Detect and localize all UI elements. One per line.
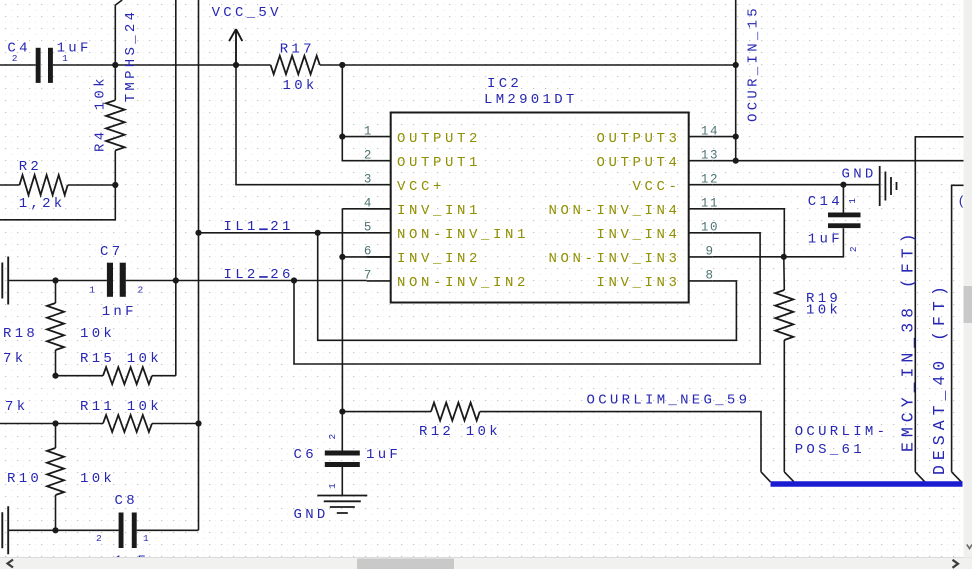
svg-text:VCC+: VCC+ [397,179,445,195]
pin 8 of IC2 [689,280,713,282]
capacitor C8 [119,513,124,549]
pin 6 of IC2 [367,256,391,258]
svg-text:OCURLIM_NEG_59: OCURLIM_NEG_59 [587,392,751,408]
wire [55,424,57,449]
junction [733,158,739,164]
wire [55,495,57,530]
wire [713,209,785,257]
junction [195,230,201,236]
wire [294,233,760,364]
pin 13 of IC2 [689,160,713,162]
wire [8,280,107,282]
svg-text:NON-INV_IN1: NON-INV_IN1 [397,227,529,243]
svg-text:DESAT_40 (FT): DESAT_40 (FT) [930,281,949,475]
svg-text:OUTPUT3: OUTPUT3 [596,131,680,147]
wire [341,467,343,496]
svg-text:R18: R18 [3,326,38,342]
capacitor C6 [325,451,360,456]
svg-text:VCC_5V: VCC_5V [212,5,282,21]
wire [320,64,736,66]
wire [53,64,271,66]
wire [152,423,199,425]
resistor R19 [775,290,793,340]
svg-text:1: 1 [62,53,69,64]
net label IL2_26 underscore [259,276,268,278]
bus OCURLIM [771,481,963,487]
wire [114,150,116,185]
junction [112,182,118,188]
svg-text:10k: 10k [93,75,109,110]
ground [317,496,367,514]
pin 10 of IC2 [689,232,713,234]
capacitor C14 [828,213,861,218]
horizontal scrollbar thumb [357,559,454,569]
capacitor C7 [107,263,113,297]
wire [0,184,20,186]
svg-text:10: 10 [701,221,719,235]
junction [339,409,345,415]
svg-text:LM2901DT: LM2901DT [484,92,578,108]
junction [52,277,58,283]
junction [173,277,179,283]
wire [342,136,366,138]
svg-text:3: 3 [364,173,373,187]
svg-text:2: 2 [327,433,338,440]
vertical scrollbar track [964,0,972,558]
junction [52,527,58,533]
junction [840,182,846,188]
vertical scrollbar down arrow [967,545,972,549]
junction [195,420,201,426]
svg-text:C7: C7 [100,244,123,260]
wire [55,350,57,376]
svg-text:R12 10k: R12 10k [419,424,501,440]
svg-text:NON-INV_IN3: NON-INV_IN3 [548,251,680,267]
vertical scrollbar thumb [964,286,972,323]
svg-text:NON-INV_IN4: NON-INV_IN4 [548,203,680,219]
resistor R18 [47,303,64,350]
wire [480,412,761,472]
resistor R10 [47,448,64,495]
svg-text:2: 2 [848,245,859,252]
junction [339,134,345,140]
svg-text:INV_IN2: INV_IN2 [397,251,481,267]
svg-text:R2: R2 [19,159,42,175]
junction [339,254,345,260]
resistor R2 [20,175,68,195]
svg-text:1: 1 [89,284,96,295]
bus entry [915,472,925,482]
svg-text:OCURLIM-: OCURLIM- [795,424,889,440]
resistor R15 [103,367,152,384]
wire [199,232,367,234]
op-amp IC2 LM2901DT box [391,113,689,303]
pin 9 of IC2 [689,256,713,258]
svg-text:2: 2 [12,53,19,64]
svg-text:INV_IN4: INV_IN4 [596,227,680,243]
svg-text:1uF: 1uF [366,447,401,463]
svg-text:8: 8 [705,269,714,283]
pin 2 of IC2 [367,160,391,162]
svg-text:2: 2 [96,533,103,544]
svg-text:IL2 26: IL2 26 [224,267,294,283]
svg-text:R4: R4 [93,129,109,152]
wire [0,185,115,220]
wire [783,340,785,472]
bus entry [761,472,771,482]
wire [713,136,736,138]
wire [342,209,390,412]
wire [318,233,737,340]
svg-text:VCC-: VCC- [632,179,680,195]
wire [342,65,366,161]
pin 4 of IC2 [367,208,391,210]
svg-text:1nF: 1nF [102,304,137,320]
svg-text:NON-INV_IN2: NON-INV_IN2 [397,275,529,291]
wire [236,65,367,185]
svg-text:GND: GND [294,507,329,523]
svg-text:OUTPUT4: OUTPUT4 [596,155,680,171]
resistor R11 [103,415,152,432]
junction [52,373,58,379]
junction [339,62,345,68]
pin 1 of IC2 [367,136,391,138]
svg-text:1: 1 [847,197,858,204]
junction [315,230,321,236]
bus entry [784,472,794,482]
wire [115,0,122,65]
capacitor C4 [36,48,41,83]
wire [713,228,844,256]
svg-text:OCUR_IN_15: OCUR_IN_15 [746,5,762,122]
wire [56,375,104,377]
wire [783,257,786,290]
svg-text:INV_IN1: INV_IN1 [397,203,481,219]
svg-text:OUTPUT2: OUTPUT2 [397,131,481,147]
svg-text:TMPHS_24: TMPHS_24 [123,9,139,103]
wire [952,185,964,472]
svg-text:R15 10k: R15 10k [80,351,162,367]
svg-text:C6: C6 [294,447,317,463]
scrollbar right arrow [953,560,959,568]
wire [68,184,116,186]
wire [114,65,116,100]
wire [915,137,963,472]
svg-text:2: 2 [138,284,145,295]
svg-text:R17: R17 [280,41,315,57]
wire [0,64,36,66]
svg-text:7k: 7k [3,351,26,367]
svg-text:R11 10k: R11 10k [80,399,162,415]
svg-text:POS_61: POS_61 [795,442,865,458]
svg-text:INV_IN3: INV_IN3 [596,275,680,291]
pin 14 of IC2 [689,136,713,138]
wire [341,412,343,451]
svg-text:C14: C14 [808,194,843,210]
svg-text:C8: C8 [115,493,138,509]
ground [880,166,897,206]
svg-text:10k: 10k [806,302,841,318]
svg-text:1uF: 1uF [808,231,843,247]
svg-text:7: 7 [364,269,373,283]
svg-text:1: 1 [327,482,338,489]
svg-text:10k: 10k [283,78,318,94]
junction [291,277,297,283]
ground [2,257,8,305]
junction [733,62,739,68]
wire [126,280,367,282]
resistor R12 [431,403,480,421]
svg-text:IC2: IC2 [487,76,522,92]
pin 5 of IC2 [367,232,391,234]
svg-text:2: 2 [364,149,373,163]
power symbol VCC_5V arrow [229,29,242,65]
svg-text:R10: R10 [7,471,42,487]
wire [8,529,118,531]
wire [0,423,103,425]
resistor R4 [106,100,125,150]
horizontal scrollbar track [0,558,972,569]
wire [735,0,737,161]
svg-text:OUTPUT1: OUTPUT1 [397,155,481,171]
wire [55,281,57,304]
svg-text:EMCY_IN_38 (FT): EMCY_IN_38 (FT) [898,228,917,452]
bus entry [952,472,962,482]
wire [175,0,177,376]
net label IL1_21 underscore [259,228,268,230]
svg-text:10k: 10k [80,471,115,487]
svg-text:7k: 7k [5,399,28,415]
junction [733,134,739,140]
svg-text:1: 1 [364,124,373,138]
wire [713,160,964,162]
junction [781,254,787,260]
svg-text:IL1 21: IL1 21 [224,219,294,235]
wire [152,375,176,377]
pin 12 of IC2 [689,184,713,186]
wire [713,184,880,186]
svg-text:10k: 10k [80,326,115,342]
junction [112,62,118,68]
pin 11 of IC2 [689,208,713,210]
wire [137,529,199,531]
pin 7 of IC2 [367,280,391,282]
wire [342,411,431,413]
svg-text:1: 1 [143,533,150,544]
svg-text:5: 5 [364,221,373,235]
wire [198,0,200,530]
svg-text:GND: GND [842,167,877,183]
scrollbar left arrow [8,560,14,568]
wire [842,185,844,213]
ground [2,506,8,554]
svg-text:1,2k: 1,2k [19,196,66,212]
junction [52,420,58,426]
junction [233,62,239,68]
resistor R17 [271,56,320,75]
pin 3 of IC2 [367,184,391,186]
